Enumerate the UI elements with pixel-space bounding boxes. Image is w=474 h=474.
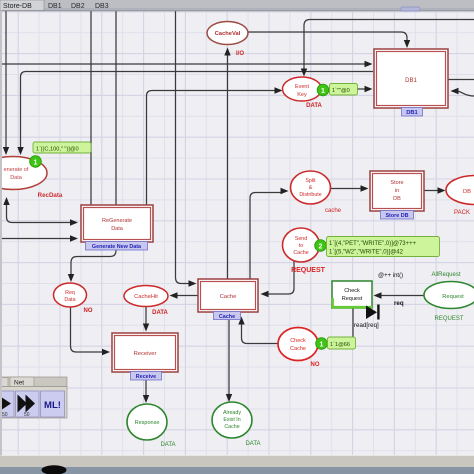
arrow up into RecData bottom	[3, 197, 9, 205]
svg-text:DATA: DATA	[245, 441, 260, 447]
svg-text:Receiver: Receiver	[134, 351, 157, 357]
place AllRequest (green, right edge)	[424, 272, 474, 322]
marking RecData	[30, 142, 91, 167]
svg-text:DB1: DB1	[48, 3, 62, 10]
wire H1: left edge to DB1 left	[0, 63, 365, 65]
svg-text:CacheHit: CacheHit	[134, 294, 158, 300]
wire: off-right edge to Event Key (top route)	[304, 20, 474, 70]
svg-text:NO: NO	[84, 308, 93, 314]
wire: left edge to ReGenerate lower input	[0, 238, 70, 240]
arrow into RecData top (from H2)	[17, 147, 23, 155]
svg-text:Cache: Cache	[224, 424, 239, 430]
svg-text:Response: Response	[135, 420, 160, 426]
arrow into ReGenerate lower	[70, 235, 78, 241]
svg-text:DATA: DATA	[152, 310, 168, 316]
svg-text:Send: Send	[295, 236, 307, 242]
svg-text:Store DB: Store DB	[385, 213, 408, 219]
arrow into Receiver left	[102, 349, 110, 355]
svg-text:req: req	[394, 300, 404, 307]
arrow into Event Key top	[301, 69, 307, 77]
svg-text:Request: Request	[342, 296, 363, 302]
svg-text:Data: Data	[111, 226, 124, 232]
svg-text:Request: Request	[442, 294, 464, 300]
wire: AllRequest to Check Request	[380, 295, 425, 297]
wire: Cache to CacheHit	[176, 295, 198, 297]
place Send to Cache	[283, 228, 326, 274]
svg-text:Store: Store	[390, 180, 403, 186]
arrow into RecData top (from top edge)	[3, 147, 9, 155]
svg-text:NO: NO	[311, 362, 320, 368]
svg-text:DB: DB	[463, 189, 471, 195]
svg-text:to: to	[299, 243, 303, 249]
transition Cache (substitution)	[198, 279, 258, 320]
svg-text:Cache: Cache	[293, 250, 308, 256]
svg-text:&: &	[309, 185, 313, 191]
place Response (green)	[127, 404, 176, 448]
place Already Exist In Cache (green)	[212, 402, 261, 447]
transition Check Request (enabled, green)	[332, 281, 372, 308]
button 3 (ML!)	[41, 391, 65, 417]
svg-text:DB1: DB1	[406, 110, 418, 116]
arrow into DB1 left (H1)	[365, 61, 373, 67]
svg-text:Receive: Receive	[136, 374, 156, 380]
svg-text:DATA: DATA	[306, 103, 322, 109]
svg-text:2: 2	[319, 243, 323, 250]
transition ReGenerate Data (substitution)	[81, 205, 153, 250]
svg-text:AllRequest: AllRequest	[431, 272, 460, 278]
svg-text:Cache: Cache	[290, 346, 306, 352]
wire: Cache up and right to Split	[250, 193, 281, 279]
svg-text:REQUEST: REQUEST	[434, 316, 463, 322]
svg-text:Req: Req	[65, 290, 75, 296]
svg-text:1`1@66: 1`1@66	[330, 342, 350, 348]
svg-text:DATA: DATA	[160, 442, 175, 448]
wire: Check Cache to Cache	[242, 323, 280, 344]
button 1 (partial play)	[0, 391, 14, 417]
arrow into Store left	[361, 185, 369, 191]
svg-text:Cache: Cache	[220, 294, 237, 300]
svg-text:I/O: I/O	[236, 51, 244, 57]
wire: Event Key to DB1 left	[321, 88, 365, 90]
arrow into Req Data top	[68, 274, 74, 282]
svg-text:Key: Key	[297, 92, 307, 98]
svg-text:DB1: DB1	[405, 78, 417, 84]
arrowheads	[3, 40, 459, 403]
wire: right edge into DB1	[452, 91, 474, 96]
wire: ReGenerate bottom to Req Data	[71, 242, 116, 275]
wire: CacheVal to DB1 top	[248, 32, 408, 41]
arrow up into CacheVal bottom	[224, 48, 230, 56]
button 2 (fast forward)	[16, 391, 40, 417]
arrow into Check Request right	[374, 292, 382, 298]
place Split & Distribute	[291, 171, 342, 214]
wire: Req Data to Receiver	[71, 307, 103, 352]
svg-text:read[req]: read[req]	[354, 322, 379, 329]
wire H2: DB1 area left to RecData place	[21, 72, 374, 148]
transition Receiver (substitution)	[112, 333, 178, 380]
svg-text:cache: cache	[325, 208, 342, 214]
wire: Check Request down to Check Cache	[326, 309, 353, 342]
svg-text:in: in	[395, 188, 399, 194]
arrow into Event Key left	[275, 87, 283, 93]
wire: top edge down to ReGenerate (a)	[90, 10, 92, 205]
svg-text:enerate of: enerate of	[4, 167, 29, 173]
arrow into Response top	[143, 395, 149, 403]
bottom scrollbar	[0, 455, 474, 474]
svg-text:RecData: RecData	[38, 192, 63, 199]
arrow into Receiver top	[143, 324, 149, 332]
marking Check Cache	[316, 337, 356, 349]
svg-text:Event: Event	[295, 84, 310, 90]
svg-text:Data: Data	[10, 175, 23, 181]
place Check Cache	[278, 328, 320, 369]
arrow into DB1 top	[404, 40, 410, 48]
svg-text:PACK: PACK	[454, 210, 470, 216]
transition DB1 (substitution)	[374, 49, 448, 116]
svg-text:CacheVal: CacheVal	[215, 31, 241, 37]
wire: Send to Cache into Cache	[266, 262, 294, 295]
svg-text:1`[(5,"W2","WRITE",0)]@42: 1`[(5,"W2","WRITE",0)]@42	[329, 250, 404, 256]
svg-text:REQUEST: REQUEST	[291, 267, 326, 274]
marking Event Key	[317, 84, 357, 96]
wire: CacheHit to Receiver	[145, 307, 147, 326]
svg-text:1`""@0: 1`""@0	[332, 88, 350, 94]
svg-text:ML!: ML!	[44, 400, 61, 411]
wire: Store in DB to right DB place	[425, 190, 439, 192]
wire: top edge down to ReGenerate (b)	[115, 10, 117, 205]
wire: Cache to Already Exist	[228, 318, 230, 396]
svg-text:Distribute: Distribute	[299, 192, 321, 198]
svg-text:1: 1	[320, 341, 324, 348]
arrow into CacheHit right	[170, 292, 178, 298]
svg-text:1`[(C,100," ")]@0: 1`[(C,100," ")]@0	[36, 147, 79, 153]
svg-text:Net: Net	[14, 380, 24, 387]
wire: Cache up to CacheVal	[227, 51, 229, 279]
arrow into DB1 right	[451, 88, 459, 94]
tab bar	[0, 0, 474, 11]
arrow into Cache left	[189, 280, 197, 286]
wire: DB1 output to right edge	[448, 79, 474, 81]
arrow into right DB place	[438, 187, 446, 193]
svg-text:Split: Split	[305, 178, 316, 184]
svg-text:Check: Check	[290, 338, 306, 344]
arrow into Already Exist top	[226, 394, 232, 402]
arrow into Cache right	[261, 291, 269, 297]
wire: Split to Store in DB	[331, 188, 362, 190]
arrow into DB1 left (from Event Key)	[365, 86, 373, 92]
place CacheVal	[207, 22, 248, 58]
svg-text:1: 1	[34, 159, 38, 166]
svg-text:Already: Already	[223, 410, 241, 416]
wire: Receiver to Response	[145, 380, 147, 397]
svg-text:ReGenerate: ReGenerate	[102, 218, 132, 224]
svg-text:50: 50	[2, 412, 8, 418]
svg-text:1`[(4,"PET","WRITE",0)]@73+++: 1`[(4,"PET","WRITE",0)]@73+++	[329, 241, 417, 247]
place Event Key	[283, 77, 323, 109]
svg-text:Data: Data	[64, 297, 75, 303]
left window edge	[0, 11, 2, 456]
place RecData (clipped at left edge)	[0, 157, 63, 200]
marking Send to Cache	[315, 237, 440, 257]
arrow into ReGenerate upper	[70, 219, 78, 225]
svg-text:DB2: DB2	[71, 3, 85, 10]
svg-text:Store-DB: Store-DB	[3, 3, 32, 10]
place DB data (right edge, clipped)	[446, 176, 474, 217]
wire: top edge down to Cache left	[176, 10, 191, 284]
svg-text:50: 50	[24, 412, 30, 418]
arrow into Split left	[281, 188, 289, 194]
svg-text:DB: DB	[393, 196, 401, 202]
wire: top edge down to RecData	[5, 10, 7, 148]
wire: ReGenerate top up and right to Event Key	[147, 91, 276, 205]
svg-text:Check: Check	[344, 288, 360, 294]
svg-text:Cache: Cache	[219, 314, 235, 320]
step marker next to Check Request	[366, 305, 380, 320]
svg-text:Exist In: Exist In	[223, 417, 240, 423]
svg-text:1: 1	[321, 88, 325, 95]
svg-text:DB3: DB3	[95, 3, 109, 10]
wire: RecData bottom loop to ReGenerate upper input	[7, 200, 71, 223]
simulation palette	[0, 377, 67, 418]
place CacheHit	[124, 286, 169, 317]
svg-text:Generate New Data: Generate New Data	[92, 244, 142, 250]
arrow up into Cache bottom	[238, 317, 244, 325]
place Req Data	[54, 283, 93, 314]
transition Store in DB (substitution)	[370, 171, 424, 219]
svg-text:@++ int(): @++ int()	[378, 273, 403, 279]
